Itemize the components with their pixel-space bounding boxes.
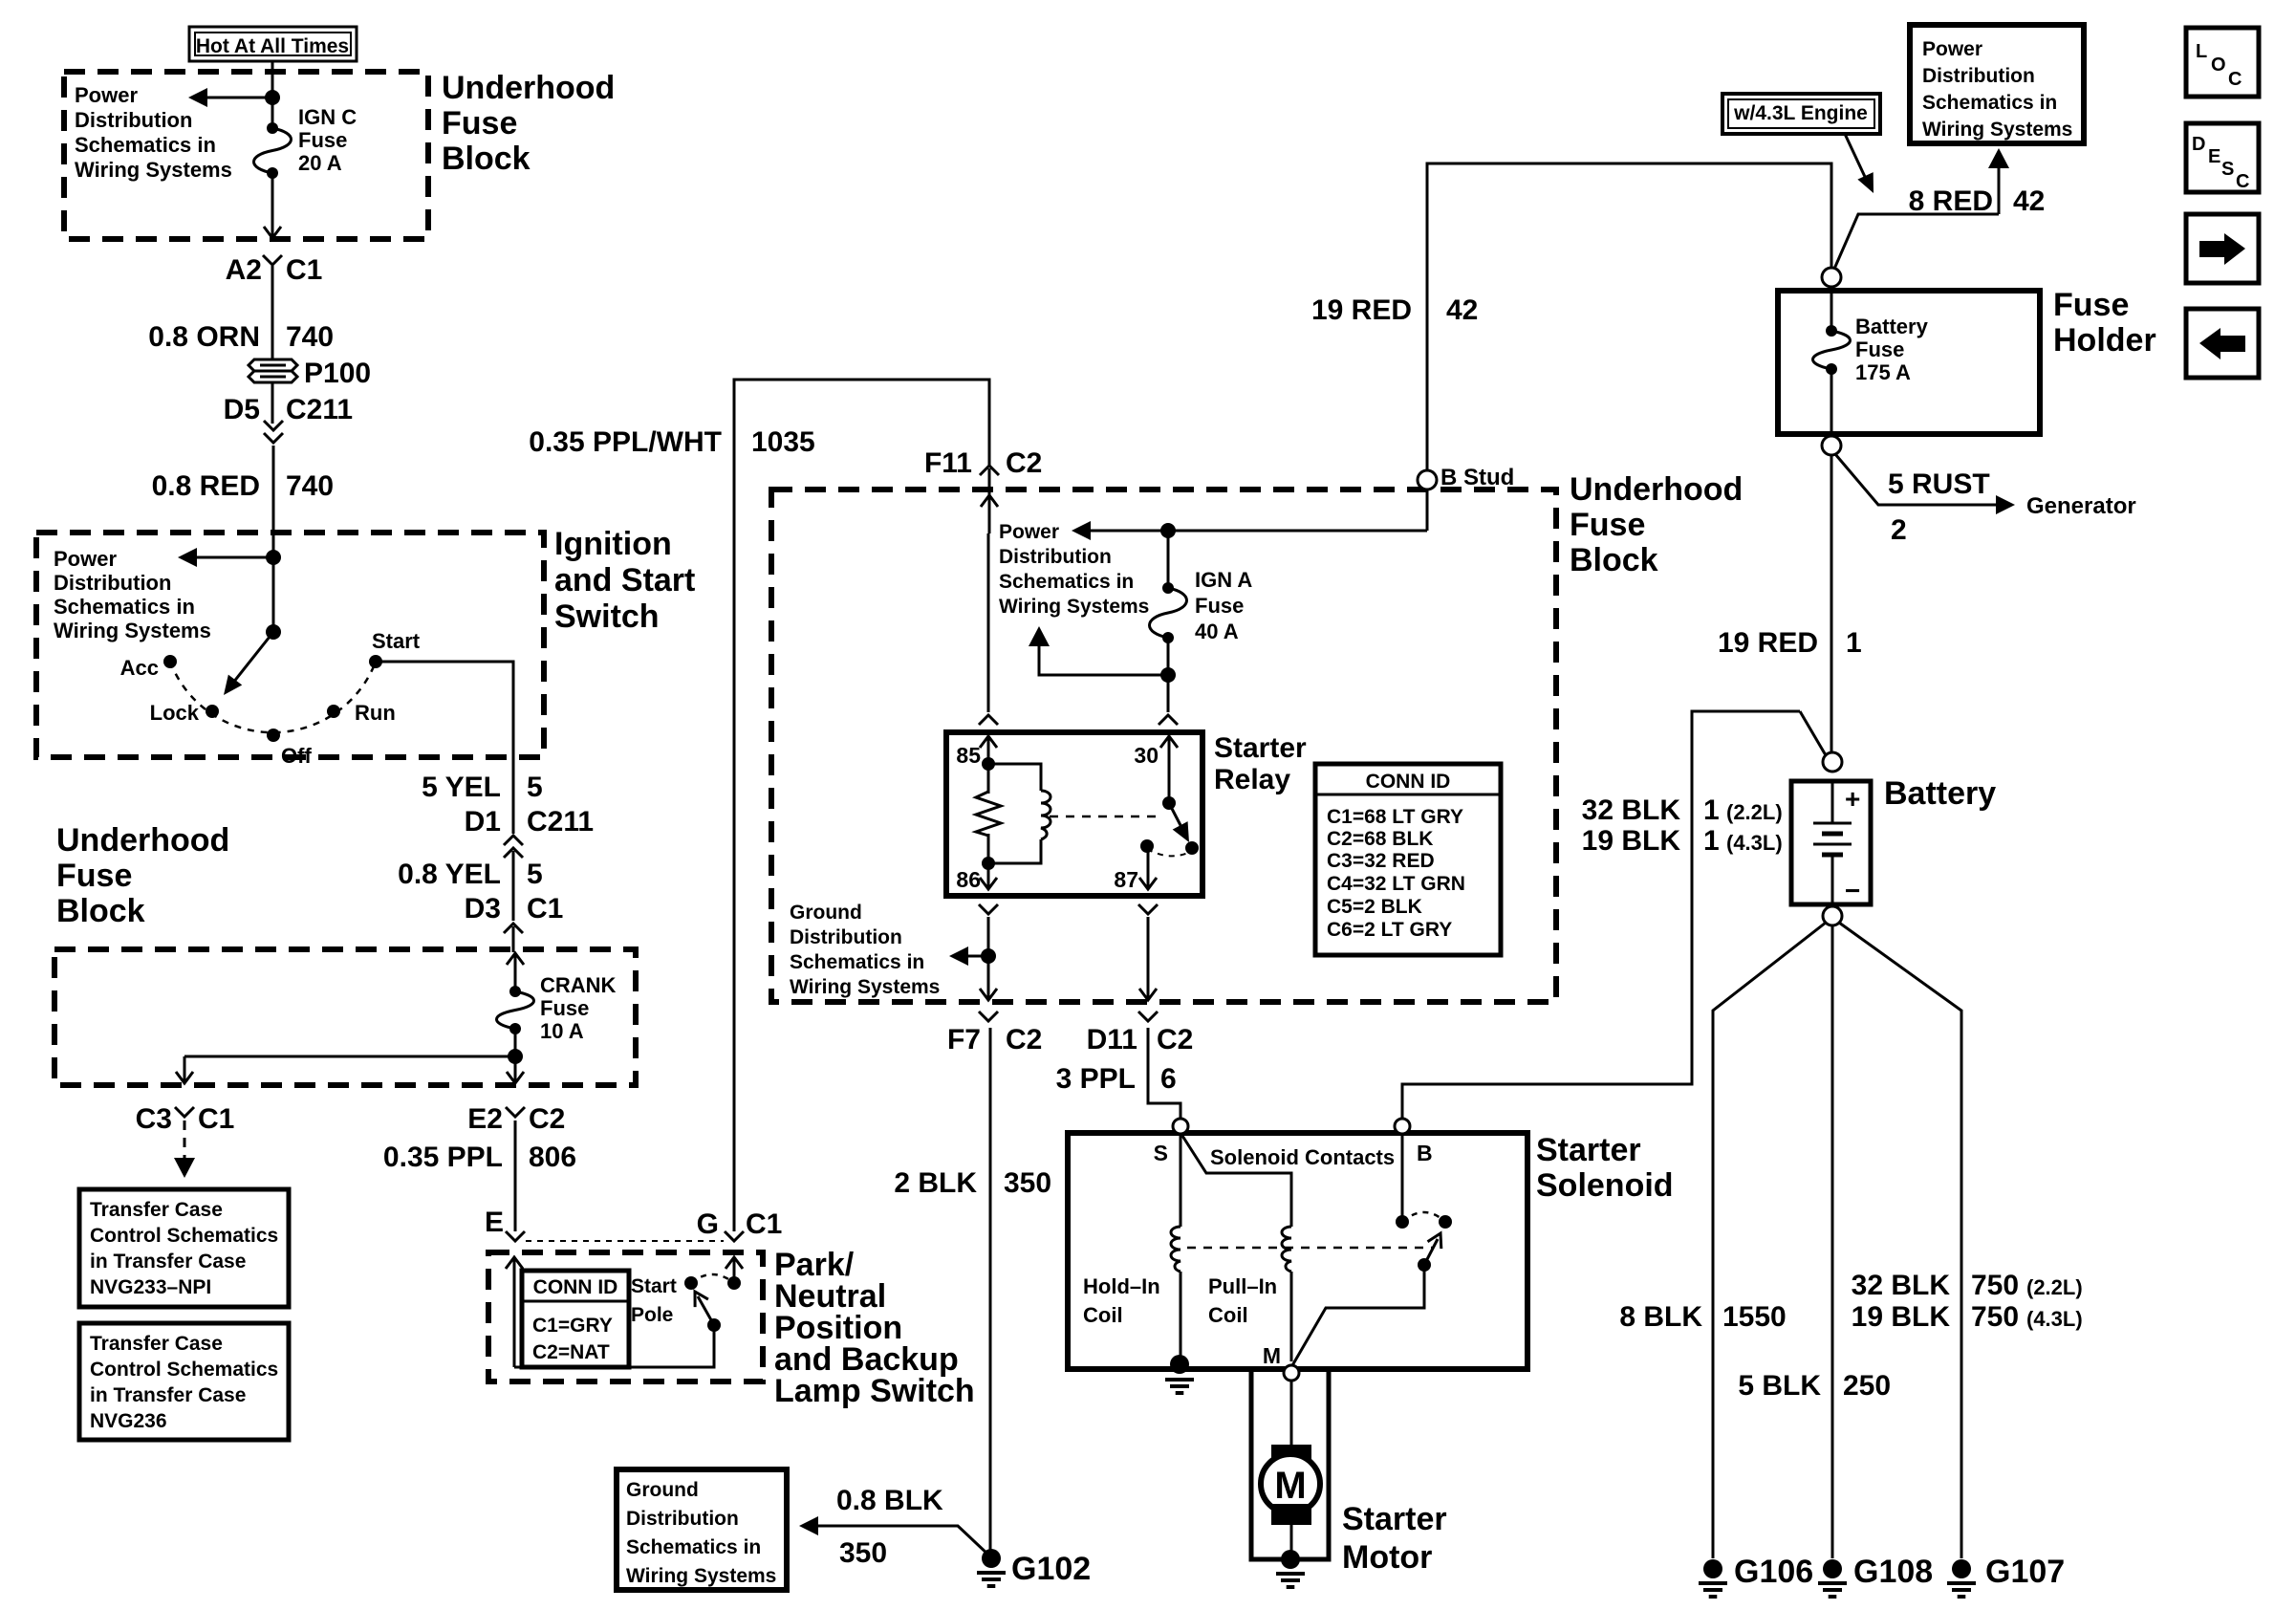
svg-text:42: 42 — [1446, 294, 1478, 326]
svg-text:Fuse: Fuse — [540, 996, 589, 1020]
svg-text:C2=68 BLK: C2=68 BLK — [1327, 828, 1433, 850]
svg-text:F7: F7 — [947, 1024, 981, 1055]
svg-text:C2: C2 — [529, 1103, 565, 1135]
note: Power Distribution Schematics in Wiring Systems (top left) — [75, 83, 232, 182]
svg-text:Power: Power — [54, 547, 117, 571]
wire: 19 RED 42 riser and feed — [1427, 163, 1831, 492]
contact dot: solenoid moving contact — [1439, 1215, 1452, 1229]
svg-text:w/4.3L Engine: w/4.3L Engine — [1733, 102, 1868, 124]
svg-text:Wiring Systems: Wiring Systems — [626, 1565, 776, 1587]
wire: pull-in coil to M — [1290, 1272, 1293, 1361]
arrow: output exits switch upward — [733, 1257, 736, 1283]
connector C1 chevron (start wire) — [504, 924, 523, 933]
svg-text:G: G — [697, 1208, 719, 1240]
svg-text:3 PPL: 3 PPL — [1056, 1063, 1136, 1095]
svg-text:C2: C2 — [1157, 1024, 1193, 1055]
svg-text:C6=2 LT GRY: C6=2 LT GRY — [1327, 919, 1452, 941]
svg-text:1: 1 — [1703, 794, 1720, 826]
svg-text:Fuse: Fuse — [1570, 507, 1645, 543]
svg-text:IGN C: IGN C — [298, 105, 357, 129]
label: Park/Neutral Position and Backup Lamp Switch — [774, 1247, 975, 1409]
svg-text:19 BLK: 19 BLK — [1852, 1301, 1951, 1333]
svg-text:Transfer Case: Transfer Case — [90, 1333, 223, 1355]
svg-text:Underhood: Underhood — [56, 822, 229, 859]
contact dot: Lock — [206, 705, 219, 718]
svg-text:CONN ID: CONN ID — [533, 1276, 618, 1298]
svg-text:Motor: Motor — [1342, 1539, 1432, 1576]
svg-text:Battery: Battery — [1855, 315, 1929, 338]
wire label: 32 BLK | 1 (2.2L) — [1582, 794, 1783, 826]
svg-text:Control Schematics: Control Schematics — [90, 1225, 278, 1247]
svg-text:Wiring Systems: Wiring Systems — [54, 619, 211, 642]
contact dot (lever end) — [1185, 841, 1199, 855]
svg-text:0.35 PPL: 0.35 PPL — [383, 1142, 503, 1173]
svg-text:5 BLK: 5 BLK — [1738, 1370, 1821, 1402]
svg-text:0.8 BLK: 0.8 BLK — [836, 1485, 943, 1516]
contact dot: Start — [369, 655, 382, 668]
svg-text:8 RED: 8 RED — [1909, 185, 1993, 217]
fuse F4: Battery Fuse 175 A — [1813, 325, 1851, 375]
arrow: B+ to power distribution schematics (left) — [1072, 521, 1427, 540]
svg-text:5: 5 — [527, 859, 543, 890]
relay K1: Starter Relay box — [946, 732, 1202, 896]
svg-text:Battery: Battery — [1884, 775, 1996, 812]
svg-text:Wiring Systems: Wiring Systems — [1922, 119, 2072, 141]
svg-text:C4=32 LT GRN: C4=32 LT GRN — [1327, 873, 1465, 895]
svg-text:C2: C2 — [1006, 447, 1042, 479]
label box: Hot At All Times — [189, 27, 357, 61]
svg-text:C211: C211 — [286, 394, 353, 425]
label: Fuse Holder — [2053, 287, 2156, 359]
nav box: forward arrow — [2186, 214, 2259, 283]
svg-text:0.8 RED: 0.8 RED — [152, 470, 260, 502]
svg-text:G106: G106 — [1734, 1554, 1813, 1590]
svg-text:in Transfer Case: in Transfer Case — [90, 1384, 246, 1406]
arrow: crank output exits block down — [514, 1068, 517, 1083]
dashed box: Underhood Fuse Block (middle) — [771, 490, 1556, 1002]
wire label: 2 BLK | 350 — [894, 1167, 1051, 1199]
junction dot (switch rotor) — [266, 624, 281, 640]
terminal circle: battery negative — [1823, 906, 1842, 925]
connector C3 | C1 label — [136, 1103, 235, 1135]
svg-text:Block: Block — [56, 893, 145, 929]
connector C211 double chevron — [264, 421, 283, 443]
svg-text:L: L — [2196, 41, 2207, 62]
connector chevron G — [725, 1231, 744, 1241]
svg-text:5 RUST: 5 RUST — [1888, 468, 1990, 500]
component box: Fuse Holder — [1778, 291, 2040, 434]
svg-text:87: 87 — [1114, 867, 1138, 892]
svg-text:(4.3L): (4.3L) — [2026, 1307, 2083, 1331]
junction dot (crank fuse output) — [508, 1049, 523, 1064]
relay pin 30 arrow — [1168, 736, 1171, 803]
arrow: to power distribution schematics (ignition) — [178, 548, 273, 567]
svg-text:C3: C3 — [136, 1103, 172, 1135]
svg-text:S: S — [2221, 159, 2234, 180]
junction dot on IGN C feed — [265, 90, 280, 105]
svg-text:−: − — [1845, 876, 1860, 905]
svg-text:C: C — [2228, 69, 2242, 90]
svg-text:Pole: Pole — [631, 1304, 673, 1326]
svg-text:740: 740 — [286, 321, 334, 353]
svg-text:Fuse: Fuse — [442, 105, 517, 141]
connector C1 chevron (transfer case ref) — [175, 1107, 194, 1117]
note box: Power Distribution Schematics in Wiring Systems (top right) — [1910, 25, 2084, 143]
note box: Transfer Case NVG233-NPI — [79, 1189, 289, 1307]
wire: switch bottom run — [514, 1325, 714, 1367]
contact dot (87) — [1140, 839, 1154, 853]
svg-text:10 A: 10 A — [540, 1019, 584, 1043]
value label: Battery Fuse 175 A — [1855, 315, 1929, 384]
junction dot (IGN A output) — [1160, 667, 1176, 683]
svg-text:42: 42 — [2013, 185, 2045, 217]
dashed arc: ignition switch positions — [170, 662, 376, 732]
wire: 0.35 PPL 806 segment — [514, 1120, 517, 1231]
svg-text:2: 2 — [1891, 514, 1907, 546]
svg-text:Block: Block — [442, 141, 531, 177]
contact dot: lever pivot — [1418, 1258, 1431, 1272]
svg-text:Ignition: Ignition — [554, 526, 672, 562]
arrow: to Power Distribution Schematics (left) — [188, 88, 272, 107]
svg-text:C5=2 BLK: C5=2 BLK — [1327, 896, 1422, 918]
dashed reference wire to transfer case note — [174, 1120, 195, 1178]
battery cell symbol — [1813, 781, 1852, 904]
wire: 0.8 YEL 5 segment — [512, 851, 515, 921]
note box: Transfer Case NVG236 — [79, 1323, 289, 1440]
svg-text:1: 1 — [1703, 825, 1720, 857]
svg-text:C211: C211 — [527, 806, 594, 838]
svg-text:350: 350 — [839, 1537, 887, 1569]
dashed box: Underhood Fuse Block (lower left) — [54, 949, 636, 1085]
ground G107 — [1947, 1559, 1976, 1597]
svg-text:Underhood: Underhood — [442, 70, 615, 106]
pin 87 arrow down — [1147, 846, 1150, 889]
wire label: 3 PPL | 6 — [1056, 1063, 1177, 1095]
wire label: 8 RED | 42 — [1909, 185, 2046, 217]
svg-text:(2.2L): (2.2L) — [1726, 800, 1783, 824]
note: Power Distribution Schematics in Wiring Systems (middle) — [999, 521, 1149, 618]
label: Starter Solenoid — [1536, 1132, 1674, 1204]
svg-text:19 RED: 19 RED — [1718, 627, 1818, 659]
wire label: 0.8 ORN | 740 — [148, 321, 334, 353]
svg-text:CONN ID: CONN ID — [1366, 771, 1451, 793]
svg-text:Distribution: Distribution — [54, 571, 171, 595]
svg-text:750: 750 — [1971, 1301, 2019, 1333]
svg-text:Generator: Generator — [2026, 493, 2136, 519]
svg-text:Lock: Lock — [150, 701, 200, 725]
wire: into ignition switch — [272, 533, 275, 632]
wire: hold-in coil to case ground — [1180, 1272, 1182, 1364]
wire: Start contact to right then down — [376, 662, 513, 757]
arrow: E wire enters switch upward — [513, 1257, 516, 1367]
fuse F1: IGN C Fuse 20 A — [254, 122, 292, 179]
svg-text:Power: Power — [999, 521, 1059, 543]
wire: battery negative to G106 — [1713, 923, 1826, 1558]
svg-text:Switch: Switch — [554, 598, 660, 635]
svg-text:Ground: Ground — [626, 1479, 699, 1501]
note: Power Distribution Schematics in Wiring Systems (ignition box) — [54, 547, 211, 642]
wire label: 5 YEL | 5 — [422, 772, 543, 803]
svg-text:Solenoid Contacts: Solenoid Contacts — [1210, 1145, 1395, 1169]
wire: IGN C fuse output to box edge — [271, 173, 274, 222]
label: Hold-In Coil — [1083, 1274, 1160, 1327]
svg-text:M: M — [1274, 1465, 1306, 1507]
connector chevron (87 below relay) — [1138, 904, 1158, 914]
arrow: branch exits block down-left — [184, 1056, 186, 1083]
svg-text:86: 86 — [956, 867, 981, 892]
svg-text:Control Schematics: Control Schematics — [90, 1359, 278, 1381]
svg-text:8 BLK: 8 BLK — [1619, 1301, 1702, 1333]
relay contact lever arrow — [1169, 803, 1189, 842]
svg-text:C2: C2 — [1006, 1024, 1042, 1055]
arrow: switch rotor pointing to Lock — [224, 632, 273, 695]
svg-text:Fuse: Fuse — [56, 858, 132, 894]
svg-text:1035: 1035 — [751, 426, 815, 458]
connector chevron (relay 30 pin) — [1159, 715, 1178, 725]
dashed arc: solenoid contact throw — [1402, 1212, 1445, 1222]
svg-text:Distribution: Distribution — [626, 1508, 739, 1530]
contact dot: Run — [327, 705, 340, 718]
svg-text:Wiring Systems: Wiring Systems — [75, 158, 232, 182]
junction dot (ignition feed) — [266, 550, 281, 565]
table: CONN ID (park/neutral switch) — [522, 1271, 629, 1367]
terminal: B Stud — [1418, 470, 1437, 490]
wire: solenoid B contact feed — [1401, 1134, 1404, 1222]
wire: S to hold-in coil — [1180, 1134, 1182, 1227]
wire label: 0.8 YEL | 5 — [398, 859, 543, 890]
connector chevron (F7) — [979, 1012, 998, 1021]
dashed link: relay coil to contacts — [1050, 816, 1162, 818]
dashed link: coils to contact — [1187, 1247, 1434, 1250]
svg-text:40 A: 40 A — [1195, 620, 1239, 643]
pin 85 arrow — [987, 736, 990, 764]
svg-text:5 YEL: 5 YEL — [422, 772, 501, 803]
svg-text:E: E — [2208, 146, 2220, 167]
svg-text:D5: D5 — [224, 394, 260, 425]
contact dot: Off — [267, 729, 280, 742]
arrow: 86 wire exits block down — [987, 966, 990, 1000]
wire: into lower fuse block — [512, 926, 515, 952]
svg-text:85: 85 — [956, 743, 981, 768]
svg-text:Block: Block — [1570, 542, 1658, 578]
wire: P100 to C211 — [271, 382, 274, 424]
svg-text:Distribution: Distribution — [1922, 65, 2035, 87]
label: Underhood Fuse Block (lower left) — [56, 822, 229, 929]
wire: 0.8 ORN 740 segment — [271, 266, 274, 359]
ground G108 — [1818, 1559, 1847, 1597]
label: Underhood Fuse Block (middle right) — [1570, 471, 1743, 578]
svg-text:Schematics in: Schematics in — [626, 1536, 761, 1558]
nav box: DESC — [2186, 123, 2259, 192]
svg-text:E2: E2 — [467, 1103, 503, 1135]
svg-text:Starter: Starter — [1214, 732, 1307, 764]
arrow+wire: 0.8 BLK 350 to G102 — [799, 1516, 990, 1556]
wire: 32/19 BLK 1 branch to solenoid B — [1402, 711, 1800, 1119]
terminal circle: M — [1284, 1365, 1299, 1381]
wire: 2 BLK 350 to G102 — [989, 1028, 992, 1558]
wire label: 19 BLK | 1 (4.3L) — [1582, 825, 1783, 857]
wire label: 19 RED | 1 — [1718, 627, 1862, 659]
arrow: start wire enters fuse block upward — [514, 953, 517, 991]
svg-text:G107: G107 — [1985, 1554, 2065, 1590]
svg-text:Lamp Switch: Lamp Switch — [774, 1373, 975, 1409]
svg-text:0.8 ORN: 0.8 ORN — [148, 321, 260, 353]
svg-text:6: 6 — [1160, 1063, 1177, 1095]
connector A2/C1 chevron — [263, 255, 282, 265]
connector F7 | C2 label — [947, 1024, 1042, 1055]
svg-text:NVG233–NPI: NVG233–NPI — [90, 1276, 211, 1298]
wire: 0.35 PPL/WHT 1035 riser — [734, 380, 989, 1231]
svg-text:S: S — [1154, 1141, 1168, 1165]
wire: relay 86 to ground ref — [987, 917, 990, 968]
connector F11 | C2 label — [924, 447, 1042, 479]
svg-text:Power: Power — [75, 83, 138, 107]
svg-text:A2: A2 — [226, 254, 262, 286]
wire: relay 87 to block edge — [1147, 917, 1150, 968]
label: Starter Motor — [1342, 1501, 1447, 1576]
svg-text:G102: G102 — [1011, 1551, 1091, 1587]
connector chevron E — [506, 1231, 525, 1241]
svg-text:Solenoid: Solenoid — [1536, 1167, 1674, 1204]
svg-text:Coil: Coil — [1083, 1303, 1123, 1327]
connector chevron (86 below relay) — [979, 904, 998, 914]
svg-text:Fuse: Fuse — [2053, 287, 2129, 323]
connector D5/C211 label — [224, 394, 353, 425]
arrow: IGN A output to power distribution (up) — [1029, 626, 1168, 675]
wire: 19 RED 1 to battery — [1830, 455, 1833, 752]
svg-text:C1=68 LT GRY: C1=68 LT GRY — [1327, 806, 1463, 828]
svg-text:175 A: 175 A — [1855, 360, 1911, 384]
value label: IGN C Fuse 20 A — [298, 105, 357, 175]
table: CONN ID (underhood fuse block) — [1315, 764, 1501, 955]
svg-text:Schematics in: Schematics in — [999, 571, 1134, 593]
svg-text:19 RED: 19 RED — [1311, 294, 1412, 326]
wire: feed from Hot At All Times into fuse block — [271, 61, 274, 128]
svg-text:Relay: Relay — [1214, 764, 1290, 795]
svg-text:D: D — [2192, 134, 2205, 155]
svg-text:D3: D3 — [465, 893, 501, 925]
svg-text:C2=NAT: C2=NAT — [532, 1341, 610, 1363]
svg-text:Distribution: Distribution — [75, 108, 192, 132]
svg-text:Transfer Case: Transfer Case — [90, 1199, 223, 1221]
wire: CRANK fuse output — [514, 1029, 517, 1068]
svg-text:Acc: Acc — [120, 656, 159, 680]
pin label A2 | C1 — [226, 254, 323, 286]
contact dot: Start pole — [684, 1276, 698, 1290]
arrow: w/4.3L Engine callout — [1845, 134, 1874, 193]
junction dot (86) — [982, 857, 995, 870]
wire: M terminal to motor — [1290, 1381, 1293, 1445]
svg-text:and Start: and Start — [554, 562, 695, 598]
svg-text:Schematics in: Schematics in — [790, 951, 924, 973]
component box: Starter Solenoid — [1068, 1133, 1527, 1369]
svg-text:Off: Off — [281, 744, 312, 768]
svg-text:C1: C1 — [198, 1103, 234, 1135]
wire label: 8 BLK | 1550 — [1619, 1301, 1786, 1333]
svg-text:C1=GRY: C1=GRY — [532, 1315, 613, 1337]
ground symbol (starter motor) — [1276, 1572, 1305, 1576]
wire: F11 into underhood fuse block — [988, 468, 991, 497]
svg-text:Schematics in: Schematics in — [54, 595, 195, 619]
note box: Ground Distribution Schematics in Wiring Systems (bottom) — [617, 1469, 787, 1590]
svg-text:B: B — [1417, 1141, 1433, 1165]
wire: IGN A to relay 30 — [1167, 638, 1170, 712]
wire: into battery fuse — [1830, 291, 1833, 331]
wire label: 0.8 RED | 740 — [152, 470, 334, 502]
svg-text:IGN A: IGN A — [1195, 568, 1252, 592]
svg-text:30: 30 — [1134, 743, 1159, 768]
pin label G | C1 — [697, 1208, 783, 1240]
svg-text:750: 750 — [1971, 1270, 2019, 1301]
svg-text:740: 740 — [286, 470, 334, 502]
arrow: exits fuse block down — [271, 222, 274, 238]
svg-text:Fuse: Fuse — [1855, 337, 1904, 361]
connector C2 chevron (F11) — [980, 466, 999, 475]
wire label: 5 RUST / 2 — [1888, 468, 1990, 546]
fuse F3: IGN A Fuse 40 A — [1150, 531, 1187, 643]
svg-text:806: 806 — [529, 1142, 576, 1173]
wire label: 32 BLK | 750 (2.2L) — [1852, 1270, 2083, 1301]
svg-text:1550: 1550 — [1722, 1301, 1787, 1333]
terminal circle: solenoid B — [1395, 1119, 1410, 1134]
wire: motor to ground — [1290, 1525, 1293, 1554]
ground dot (starter motor) — [1281, 1550, 1300, 1569]
junction dot (IGN A tap) — [1160, 523, 1176, 538]
fuse F2: CRANK Fuse 10 A — [497, 986, 534, 1034]
svg-text:Schematics in: Schematics in — [75, 133, 216, 157]
lever arrow: park switch — [695, 1292, 714, 1325]
contact dot: B contact — [1396, 1215, 1409, 1229]
svg-text:250: 250 — [1843, 1370, 1891, 1402]
svg-text:0.35 PPL/WHT: 0.35 PPL/WHT — [529, 426, 722, 458]
junction dot (85) — [982, 757, 995, 771]
svg-text:32 BLK: 32 BLK — [1582, 794, 1681, 826]
wire label: 19 BLK | 750 (4.3L) — [1852, 1301, 2083, 1333]
motor M1: Starter Motor symbol — [1261, 1445, 1320, 1525]
label: Underhood Fuse Block (top left) — [442, 70, 615, 177]
svg-text:B Stud: B Stud — [1440, 465, 1514, 490]
nav box: LOC — [2186, 28, 2259, 97]
dotted connector line between E and G — [526, 1240, 724, 1242]
label: Start Pole — [631, 1275, 677, 1326]
dashed arc: relay contact throw — [1147, 849, 1190, 856]
pin 86 arrow down — [987, 863, 990, 889]
label: Ignition and Start Switch — [554, 526, 695, 635]
value label: IGN A Fuse 40 A — [1195, 568, 1252, 643]
svg-text:F11: F11 — [924, 447, 972, 479]
wire label: 5 BLK | 250 — [1738, 1370, 1891, 1402]
connector D1 | C211 label — [465, 806, 594, 838]
svg-text:Pull–In: Pull–In — [1208, 1274, 1277, 1298]
svg-text:E: E — [485, 1207, 504, 1238]
wire: B stud into fuse block — [1426, 492, 1429, 531]
wire: 5 RUST 2 to generator — [1835, 454, 2015, 514]
inductor: Hold-In Coil — [1171, 1227, 1180, 1272]
svg-text:G108: G108 — [1853, 1554, 1933, 1590]
dashed box: Park/Neutral Position and Backup Lamp Switch — [488, 1252, 763, 1382]
contact dot (30) — [1162, 796, 1176, 810]
svg-text:1: 1 — [1846, 627, 1862, 659]
svg-text:C: C — [2236, 171, 2249, 192]
svg-text:Schematics in: Schematics in — [1922, 92, 2057, 114]
note: Ground Distribution Schematics in Wiring Systems (middle) — [790, 902, 940, 998]
connector D3 | C1 label — [465, 893, 564, 925]
svg-text:Hot At All Times: Hot At All Times — [196, 35, 349, 57]
wire label: 19 RED | 42 — [1311, 294, 1478, 326]
inductor: Pull-In Coil — [1282, 1227, 1291, 1272]
svg-text:20 A: 20 A — [298, 151, 342, 175]
svg-text:Start: Start — [631, 1275, 677, 1297]
